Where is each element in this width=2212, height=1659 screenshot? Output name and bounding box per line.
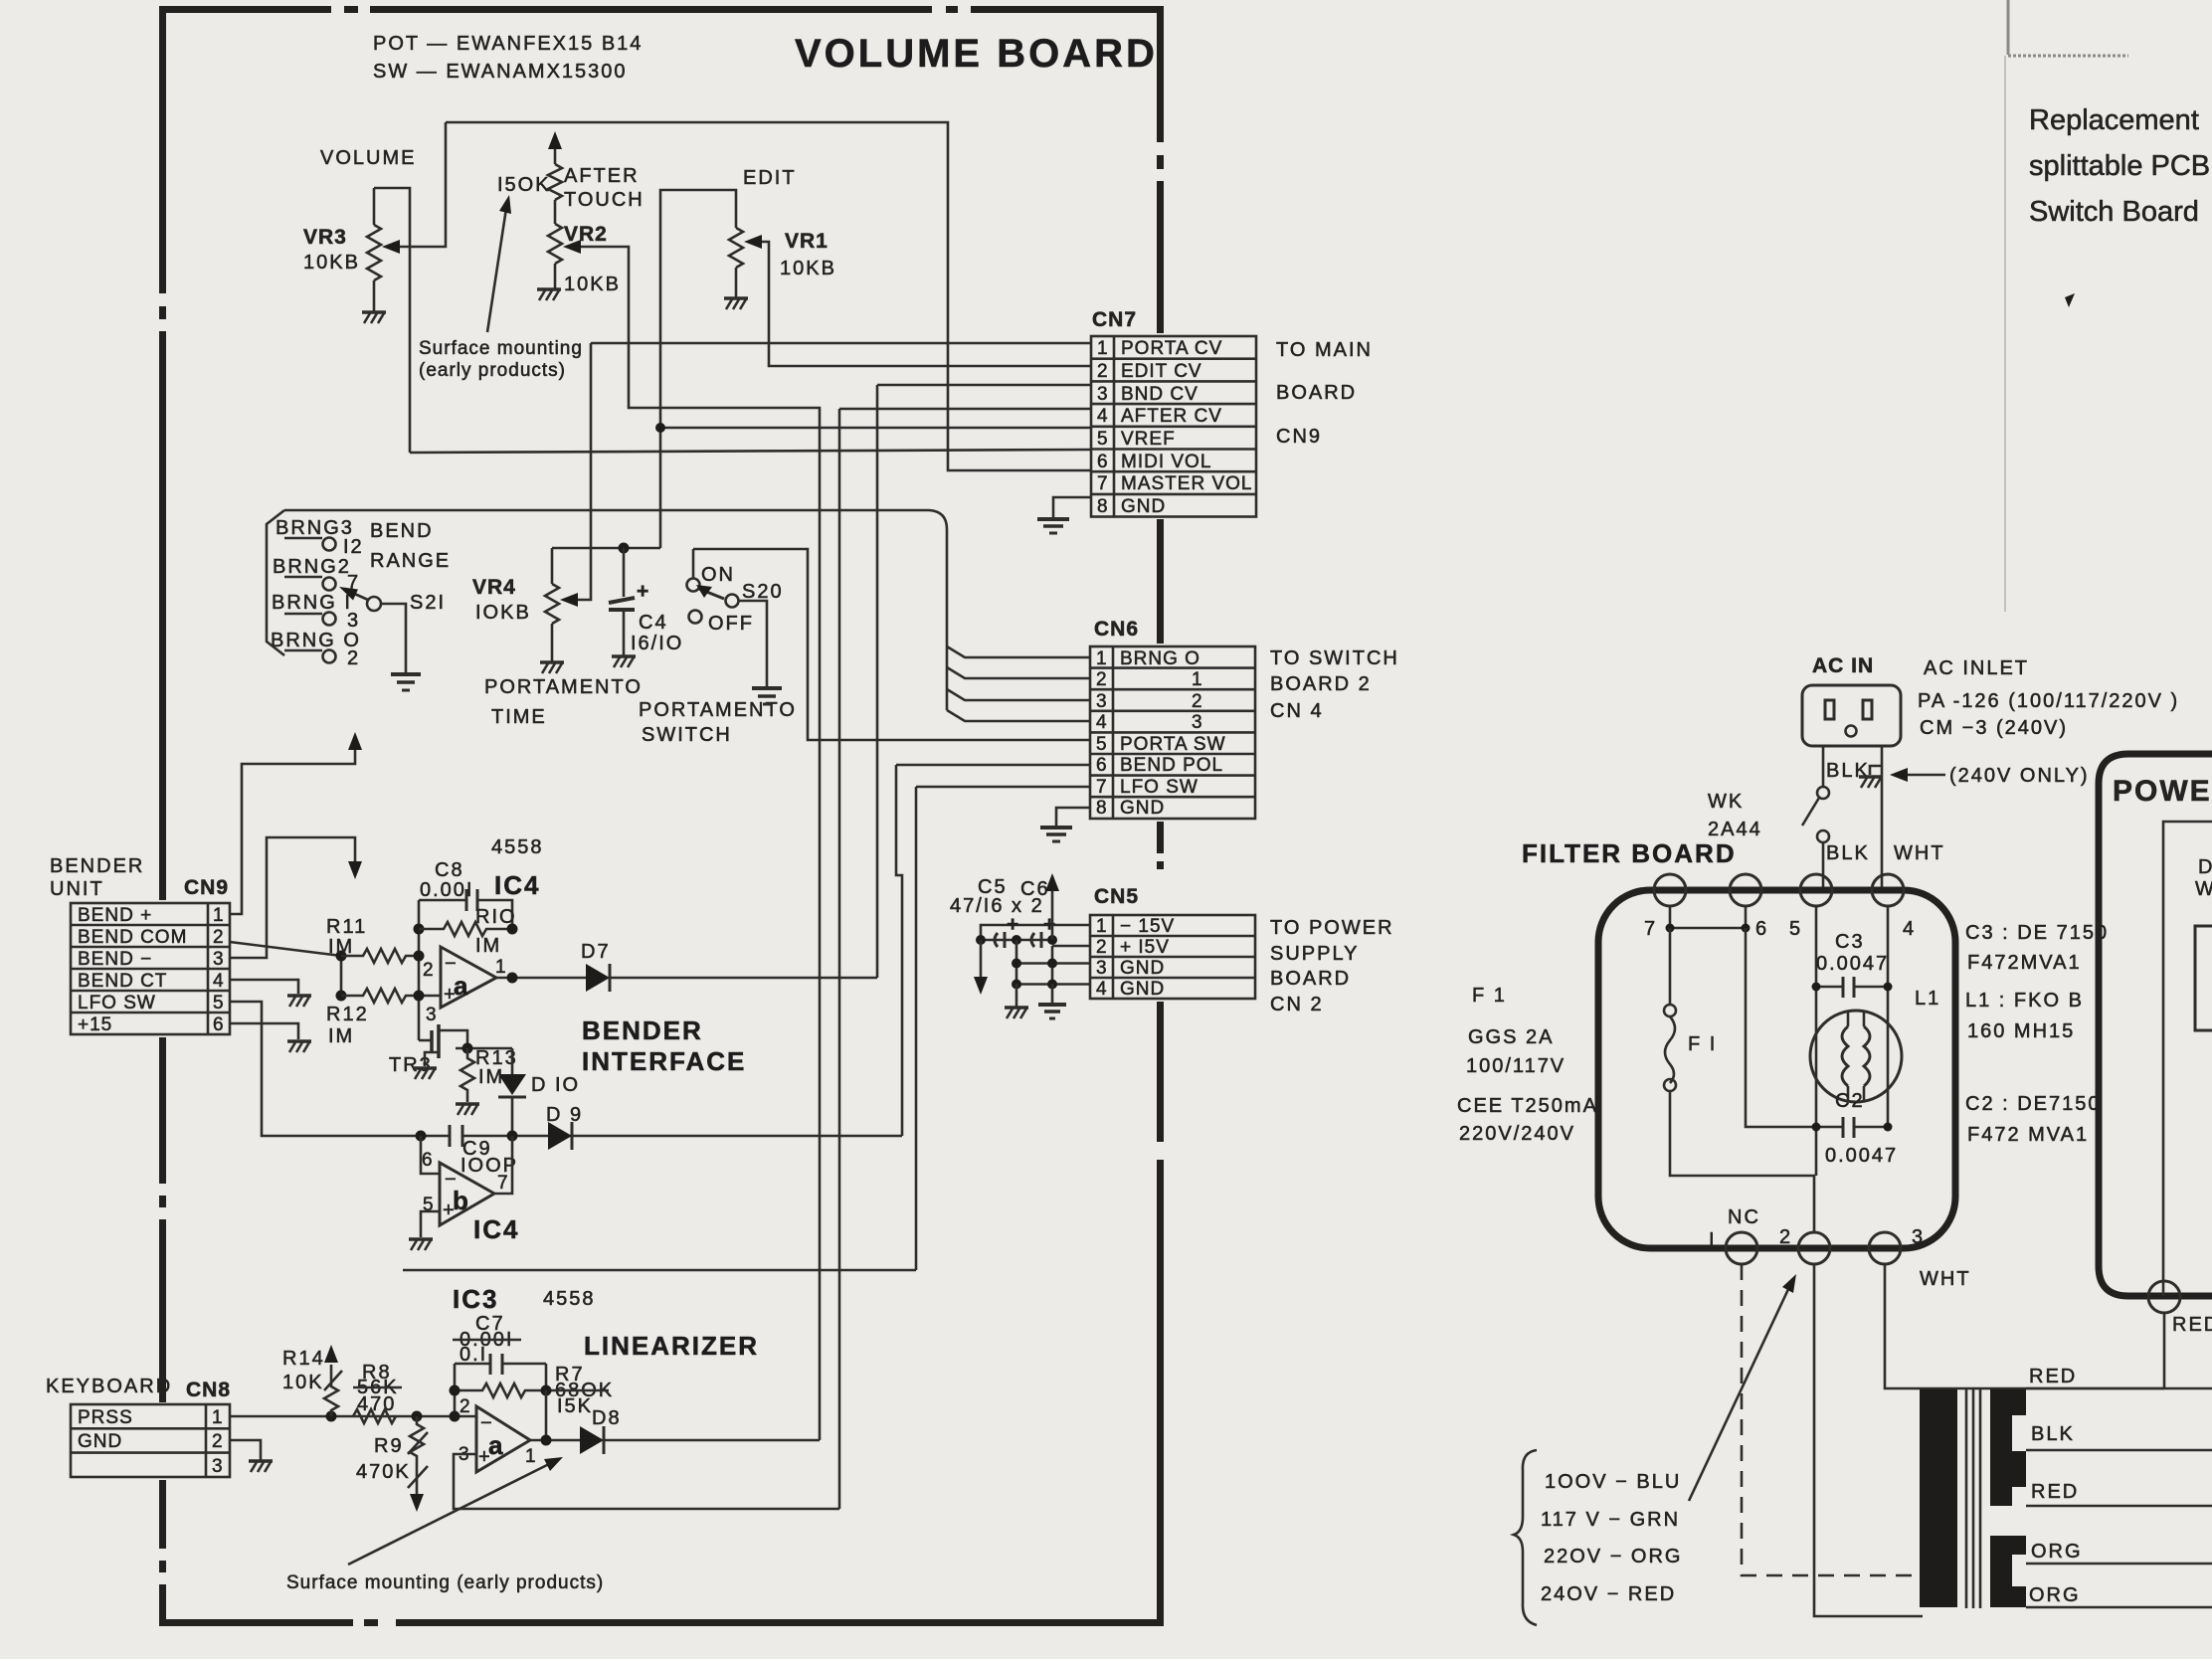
svg-text:BEND: BEND [370, 520, 434, 542]
svg-text:CN7: CN7 [1092, 308, 1137, 331]
wire CN9 pin1 up arrow [230, 740, 355, 914]
wire pin6 to C2 [1746, 928, 1816, 1127]
svg-text:100/117V: 100/117V [1466, 1055, 1566, 1077]
wire IC4b output [494, 1136, 512, 1194]
wire CN8 pin1 line [230, 1415, 476, 1418]
svg-text:VOLUME BOARD: VOLUME BOARD [795, 32, 1158, 76]
svg-text:(240V ONLY): (240V ONLY) [1949, 765, 2090, 787]
wire LFO SW run [916, 787, 1090, 1270]
svg-text:CN 4: CN 4 [1270, 700, 1324, 722]
svg-text:8: 8 [1097, 496, 1109, 517]
svg-text:GND: GND [1121, 496, 1166, 517]
svg-text:2: 2 [1097, 361, 1109, 382]
wire BRNG fan row1 [947, 646, 1090, 657]
svg-text:VR2: VR2 [564, 223, 608, 246]
board filter outline [1598, 890, 1955, 1248]
svg-text:I5OK: I5OK [497, 174, 551, 196]
svg-text:1: 1 [525, 1446, 537, 1467]
svg-text:10KB: 10KB [780, 258, 836, 279]
svg-text:GND: GND [1120, 979, 1165, 1000]
switch S21 contacts [284, 538, 336, 663]
board border left [159, 6, 166, 900]
svg-text:2: 2 [460, 1396, 471, 1417]
svg-text:3: 3 [1096, 958, 1108, 979]
wire D7 to CN7 pin3 [610, 977, 877, 980]
board border top [159, 6, 1164, 13]
svg-text:TO SWITCH: TO SWITCH [1270, 647, 1399, 669]
svg-text:4558: 4558 [491, 836, 544, 858]
svg-text:1: 1 [1096, 916, 1108, 937]
potentiometer VR2 [548, 224, 562, 288]
potentiometer VR4 [545, 548, 559, 661]
svg-text:BND CV: BND CV [1121, 384, 1198, 405]
svg-text:splittable PCB: splittable PCB [2029, 150, 2210, 182]
wire CN9 pin5 to C9 [230, 1002, 421, 1136]
connector CN5 [1090, 885, 1255, 1000]
svg-text:CN9: CN9 [1276, 426, 1322, 448]
op-amp IC4a [441, 947, 496, 1008]
wire S21 to ground [381, 604, 406, 672]
svg-text:TO MAIN: TO MAIN [1276, 339, 1373, 361]
svg-text:AC IN: AC IN [1812, 654, 1874, 677]
svg-text:10KB: 10KB [564, 274, 621, 295]
svg-text:SUPPLY: SUPPLY [1270, 943, 1359, 965]
op-amp IC4b [440, 1163, 494, 1225]
wire MIDI VOL run [410, 450, 1091, 453]
svg-text:4: 4 [1096, 979, 1108, 1000]
svg-text:1: 1 [213, 905, 225, 926]
wire CN9 pin2 to R11 [230, 942, 341, 996]
ground CN7 [1037, 519, 1069, 533]
svg-text:C2 : DE7150: C2 : DE7150 [1965, 1093, 2102, 1115]
svg-text:CN8: CN8 [186, 1379, 231, 1401]
svg-text:Surface mounting (early produc: Surface mounting (early products) [286, 1572, 604, 1593]
svg-text:2: 2 [212, 1431, 224, 1452]
transformer secondary upper bar [1990, 1389, 2026, 1506]
svg-text:GND: GND [78, 1431, 122, 1452]
svg-text:7: 7 [1097, 473, 1109, 494]
svg-text:IOOP: IOOP [461, 1155, 518, 1177]
terminal 6 [1730, 874, 1761, 906]
svg-text:3: 3 [1912, 1226, 1925, 1248]
svg-text:R9: R9 [374, 1435, 404, 1457]
svg-text:3: 3 [1096, 691, 1108, 712]
board border bottom [159, 1619, 1164, 1626]
ground C4 hatch [612, 656, 636, 667]
wire switch to pin5 [1822, 842, 1825, 890]
svg-text:2: 2 [1779, 1226, 1792, 1248]
wire BRNG fan row3 [947, 689, 1090, 700]
wire D8 output [604, 1439, 820, 1442]
svg-text:GND: GND [1120, 958, 1165, 979]
svg-text:D7: D7 [581, 941, 611, 963]
wire power RED to transformer [2163, 1313, 2166, 1388]
annotation surface mounting arrow [348, 1462, 553, 1565]
terminal 5 [1800, 874, 1832, 906]
svg-text:Surface mounting: Surface mounting [419, 338, 583, 359]
switch S20 [687, 549, 739, 624]
svg-text:1: 1 [1096, 648, 1108, 669]
wire power inner block [2163, 822, 2212, 1296]
photo corner top right [2005, 0, 2128, 612]
svg-text:VR1: VR1 [785, 230, 829, 253]
ground S21 [391, 674, 421, 690]
svg-text:C2: C2 [1835, 1090, 1865, 1112]
svg-text:6: 6 [422, 1150, 434, 1171]
svg-text:BEND −: BEND − [78, 949, 152, 970]
svg-text:BLK: BLK [2031, 1423, 2075, 1445]
svg-text:+: + [1043, 913, 1056, 936]
capacitor C6 [1031, 932, 1041, 948]
wire S20 box [693, 549, 1090, 740]
svg-text:W: W [2195, 878, 2212, 900]
svg-text:1: 1 [1192, 669, 1203, 690]
svg-text:BOARD: BOARD [1270, 968, 1351, 990]
wire secondary ORG1 [2026, 1563, 2212, 1566]
svg-text:117 V − GRN: 117 V − GRN [1541, 1509, 1680, 1531]
svg-text:BOARD 2: BOARD 2 [1270, 673, 1372, 695]
wire CN9 pin4 to ground [230, 980, 298, 994]
svg-text:2: 2 [213, 927, 225, 948]
wire BRNG fan row4 [947, 710, 1090, 721]
wire VR4 top to C4 node [552, 547, 660, 550]
transformer core lines [1966, 1389, 1980, 1608]
svg-text:2: 2 [423, 960, 435, 981]
wire TR3 drain node [456, 1047, 512, 1050]
terminal 1 [1726, 1232, 1757, 1264]
svg-text:BOARD: BOARD [1276, 382, 1357, 404]
svg-text:2: 2 [1096, 669, 1108, 690]
svg-text:a: a [488, 1430, 504, 1460]
svg-text:F472MVA1: F472MVA1 [1967, 952, 2082, 974]
svg-text:MIDI VOL: MIDI VOL [1121, 452, 1211, 472]
svg-text:F472 MVA1: F472 MVA1 [1967, 1124, 2089, 1146]
ground CN6 [1040, 828, 1072, 841]
svg-text:CM −3 (240V): CM −3 (240V) [1920, 717, 2068, 739]
annotation 240V ONLY [1902, 774, 1945, 777]
svg-text:CEE T250mA: CEE T250mA [1457, 1095, 1598, 1117]
wire BRNG top run to CN6 [284, 510, 947, 710]
svg-text:2A44: 2A44 [1708, 819, 1762, 840]
wire BEND POL run [896, 765, 1090, 1136]
wire EDIT top branch [660, 190, 736, 548]
svg-text:CN 2: CN 2 [1270, 994, 1324, 1015]
svg-text:PA -126 (100/117/220V ): PA -126 (100/117/220V ) [1918, 690, 2179, 712]
svg-text:IM: IM [328, 1025, 354, 1047]
wire CN9 pin3 down arrow [230, 837, 355, 958]
ground S20 [752, 688, 782, 704]
svg-text:24OV − RED: 24OV − RED [1541, 1583, 1676, 1605]
connector CN9 [71, 876, 230, 1035]
svg-text:4: 4 [1096, 712, 1108, 733]
ground 240V tap [1870, 766, 1882, 775]
node junction dots C5C6 [976, 935, 986, 945]
svg-text:4: 4 [1903, 918, 1916, 940]
wire C8 left vertical bus [418, 900, 421, 1040]
svg-text:TO POWER: TO POWER [1270, 917, 1394, 939]
svg-text:IC4: IC4 [473, 1214, 519, 1244]
annotation arrow to pin2 [1689, 1285, 1790, 1501]
connector CN8 [71, 1379, 231, 1477]
svg-text:IM: IM [475, 935, 501, 957]
svg-text:NC: NC [1728, 1206, 1760, 1228]
svg-text:4: 4 [1097, 406, 1109, 427]
svg-text:BRNG2: BRNG2 [273, 556, 351, 578]
capacitor C7 [455, 1363, 546, 1366]
wire secondary RED2 [2026, 1505, 2212, 1508]
wire secondary ORG2 [2026, 1606, 2212, 1609]
terminal 4 [1872, 874, 1904, 906]
svg-text:47/I6 x 2: 47/I6 x 2 [950, 895, 1044, 917]
svg-text:FILTER BOARD: FILTER BOARD [1522, 838, 1737, 868]
svg-text:I6/IO: I6/IO [631, 633, 683, 654]
connector CN6 [1090, 618, 1255, 819]
wire aftertouch up arrow [548, 131, 562, 149]
svg-text:IC4: IC4 [494, 870, 540, 900]
ground TR3 hatch [413, 1068, 437, 1079]
svg-text:+: + [1007, 913, 1019, 936]
svg-text:GND: GND [1120, 798, 1165, 819]
wire CN5 pin2 rail [1052, 945, 1090, 948]
svg-text:D IO: D IO [531, 1074, 580, 1096]
svg-text:R12: R12 [326, 1004, 369, 1025]
svg-text:6: 6 [1097, 452, 1109, 472]
switch S21 pole [367, 597, 381, 611]
ground VR1 hatch [724, 298, 748, 309]
svg-text:0.0047: 0.0047 [1816, 953, 1889, 975]
svg-text:POT — EWANFEX15 B14: POT — EWANFEX15 B14 [373, 33, 643, 55]
svg-text:PORTAMENTO: PORTAMENTO [639, 699, 797, 721]
svg-text:AC INLET: AC INLET [1924, 657, 2029, 679]
svg-text:+: + [637, 580, 649, 603]
svg-text:0.0047: 0.0047 [1825, 1145, 1898, 1167]
annotation arrow to 150K [487, 202, 507, 332]
wire IC4b pin6 [421, 1136, 440, 1174]
svg-text:BEND COM: BEND COM [78, 927, 187, 948]
wire CN5 pin1 [981, 925, 1090, 939]
svg-text:− 15V: − 15V [1120, 916, 1175, 937]
wire pin3 WHT to primary [1885, 1264, 2164, 1388]
capacitor C4 [609, 548, 635, 655]
svg-text:EDIT: EDIT [743, 167, 797, 189]
terminal 2 [1798, 1232, 1830, 1264]
svg-text:ORG: ORG [2029, 1584, 2081, 1606]
svg-text:C8: C8 [435, 859, 464, 881]
svg-text:LFO SW: LFO SW [1120, 777, 1198, 798]
connector AC inlet [1802, 685, 1901, 746]
svg-text:SW — EWANAMX15300: SW — EWANAMX15300 [373, 61, 628, 83]
svg-text:470: 470 [357, 1393, 396, 1415]
connector CN7 [1091, 308, 1256, 517]
svg-text:3: 3 [1192, 712, 1203, 733]
svg-text:PRSS: PRSS [78, 1407, 133, 1428]
svg-text:BEND CT: BEND CT [78, 971, 167, 992]
svg-text:4558: 4558 [543, 1288, 596, 1310]
wire VR2 wiper into bus A [571, 247, 820, 1440]
wire CN8 pin2 to ground [230, 1440, 261, 1460]
svg-text:7: 7 [1644, 918, 1657, 940]
svg-text:10K: 10K [282, 1372, 324, 1393]
wire VR1 wiper to CN7 pin2 [752, 242, 1091, 366]
svg-text:2: 2 [1096, 937, 1108, 958]
ground R13 hatch [456, 1104, 479, 1115]
ground CN9 pin6 hatch [287, 1041, 311, 1052]
transformer secondary lower bar [1990, 1536, 2026, 1607]
wire VR3 top loop [374, 188, 410, 453]
potentiometer VR1 [729, 228, 743, 297]
svg-text:3: 3 [426, 1005, 438, 1025]
svg-text:ORG: ORG [2031, 1541, 2083, 1563]
switch S21 bracket [267, 510, 284, 655]
svg-text:+15: +15 [78, 1014, 112, 1035]
svg-text:VREF: VREF [1121, 429, 1176, 450]
ground C5 hatch [1005, 1008, 1028, 1018]
svg-text:RANGE: RANGE [370, 550, 451, 572]
wire gnd rails [1016, 940, 1052, 984]
wire AFTER CV run from bus B [839, 409, 1091, 1509]
ground IC4b hatch [409, 1239, 433, 1250]
wire IC3a pin3 [454, 1454, 839, 1509]
svg-text:BRNG O: BRNG O [1120, 648, 1200, 669]
wire BRNG fan row2 [947, 667, 1090, 678]
svg-text:C3 : DE 7150: C3 : DE 7150 [1965, 922, 2109, 944]
svg-text:PORTA CV: PORTA CV [1121, 338, 1222, 359]
svg-text:BEND POL: BEND POL [1120, 755, 1223, 776]
svg-text:F 1: F 1 [1472, 985, 1507, 1007]
svg-text:L1: L1 [1915, 988, 1940, 1010]
svg-text:BLK: BLK [1826, 842, 1870, 864]
svg-text:OFF: OFF [708, 613, 754, 635]
block inner rect [2195, 926, 2212, 1030]
ground CN8 hatch [249, 1461, 273, 1472]
capacitor C5 [995, 932, 1005, 948]
svg-text:VR4: VR4 [472, 576, 516, 599]
svg-text:WK: WK [1708, 791, 1744, 813]
svg-text:5: 5 [1097, 429, 1109, 450]
svg-text:R11: R11 [326, 916, 367, 938]
svg-text:6: 6 [1755, 918, 1768, 940]
svg-text:8: 8 [1096, 798, 1108, 819]
svg-text:F I: F I [1688, 1033, 1717, 1055]
svg-text:4: 4 [213, 971, 225, 992]
svg-text:22OV − ORG: 22OV − ORG [1544, 1546, 1683, 1567]
wire CN9 pin6 to ground [230, 1023, 298, 1039]
svg-text:D8: D8 [592, 1407, 622, 1429]
wire pin4 vertical [1887, 906, 1890, 1127]
svg-text:INTERFACE: INTERFACE [582, 1046, 746, 1076]
svg-text:ON: ON [701, 564, 735, 586]
svg-text:(early products): (early products) [419, 360, 566, 381]
wire pins7-6 link [1670, 906, 1746, 928]
op-amp IC3a [476, 1406, 530, 1472]
wire inlet right lead to pin4 [1881, 746, 1884, 890]
svg-text:Switch Board: Switch Board [2029, 196, 2199, 228]
svg-text:I2: I2 [343, 536, 364, 558]
svg-text:CN6: CN6 [1094, 618, 1139, 641]
svg-text:D 9: D 9 [546, 1104, 583, 1126]
capacitor C8 loop [419, 900, 512, 929]
wire CN6 pin8 to ground [1056, 808, 1090, 827]
transformer T1 primary bar [1920, 1389, 1957, 1607]
terminal 7 [1654, 874, 1686, 906]
svg-text:10KB: 10KB [303, 252, 360, 274]
svg-text:EDIT CV: EDIT CV [1121, 361, 1202, 382]
brace voltage table [1514, 1450, 1537, 1625]
svg-text:RED: RED [2031, 1481, 2079, 1503]
svg-text:R14: R14 [282, 1348, 325, 1370]
svg-text:6: 6 [1096, 755, 1108, 776]
svg-text:3: 3 [212, 1456, 224, 1477]
board border right [1157, 6, 1164, 1622]
ground VR2 hatch [537, 289, 561, 300]
svg-text:220V/240V: 220V/240V [1459, 1123, 1575, 1145]
svg-text:MASTER VOL: MASTER VOL [1121, 473, 1252, 494]
svg-text:IOKB: IOKB [475, 602, 531, 624]
svg-text:BEND +: BEND + [78, 905, 152, 926]
svg-text:5: 5 [213, 993, 225, 1014]
svg-text:LFO SW: LFO SW [78, 993, 156, 1014]
svg-text:BRNG I: BRNG I [272, 592, 352, 614]
svg-text:TIME: TIME [491, 706, 547, 728]
svg-text:CN5: CN5 [1094, 885, 1139, 908]
wire IC3a output [530, 1439, 580, 1442]
svg-text:GGS 2A: GGS 2A [1468, 1026, 1554, 1048]
svg-text:AFTER CV: AFTER CV [1121, 406, 1222, 427]
svg-text:WHT: WHT [1894, 842, 1945, 864]
resistor 150K [548, 145, 562, 224]
svg-text:a: a [454, 971, 469, 1001]
svg-text:PORTA SW: PORTA SW [1120, 734, 1226, 755]
svg-text:C3: C3 [1835, 931, 1865, 953]
wire CN7 pin8 to ground [1053, 497, 1091, 518]
terminal power RED [2148, 1281, 2180, 1313]
ground CN9 pin4 hatch [287, 996, 311, 1007]
wire frame bottom [403, 1269, 916, 1272]
ground C6 [1038, 1005, 1066, 1018]
wire pin2 to primary bottom [1814, 1264, 1923, 1616]
wire -15 down arrow [980, 940, 983, 980]
svg-text:BENDER: BENDER [50, 855, 144, 877]
svg-text:AFTER: AFTER [564, 165, 640, 187]
svg-text:PORTAMENTO: PORTAMENTO [484, 676, 643, 698]
svg-text:Replacement: Replacement [2029, 104, 2199, 136]
wire pin1 dashed tap [1742, 1264, 1920, 1575]
svg-text:KEYBOARD: KEYBOARD [46, 1376, 172, 1397]
wire pin5 vertical [1815, 906, 1818, 1176]
svg-text:I5K: I5K [557, 1395, 593, 1417]
wire secondary RED1 [2026, 1387, 2212, 1390]
potentiometer VR3 [367, 188, 381, 311]
svg-text:UNIT: UNIT [50, 878, 104, 900]
svg-text:C4: C4 [639, 612, 668, 634]
svg-text:3: 3 [1097, 384, 1109, 405]
wire IC4b pin5 to ground [421, 1211, 440, 1237]
svg-text:1OOV − BLU: 1OOV − BLU [1545, 1471, 1681, 1493]
svg-text:2: 2 [1192, 691, 1203, 712]
svg-text:6: 6 [213, 1014, 225, 1035]
resistor R11 [341, 949, 419, 963]
svg-text:D: D [2198, 856, 2212, 878]
svg-text:b: b [453, 1186, 470, 1215]
svg-text:IC3: IC3 [453, 1284, 498, 1314]
wire IC4a output [496, 977, 586, 980]
wire VREF run [660, 427, 1091, 430]
wire S20 to ground [739, 601, 767, 686]
svg-text:TOUCH: TOUCH [564, 189, 645, 211]
board power outline [2099, 754, 2212, 1296]
svg-text:S2I: S2I [410, 592, 446, 614]
wire BND CV vertical [877, 385, 1091, 978]
